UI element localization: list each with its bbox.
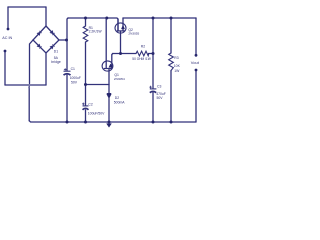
svg-text:50V: 50V [71,80,78,84]
svg-text:2.2K/1W: 2.2K/1W [89,30,103,34]
node D2 bottom [108,121,111,124]
wire Q1 base drop [108,69,110,93]
svg-text:10K: 10K [174,64,181,68]
diode D1a top-left [37,31,41,35]
wire Q2 emitter stub [122,18,124,31]
svg-text:Vout: Vout [191,60,200,65]
wire R2 right lead [149,53,154,55]
wire Vout minus lead [195,71,197,122]
svg-text:1000uF: 1000uF [70,76,81,80]
Vout plus terminal [195,54,198,57]
wire Q2 collector stub [117,19,119,31]
wire bridge plus out [59,39,67,41]
wire AC return bottom [5,84,46,86]
wire top rail right [123,17,196,19]
transistor Q2 [115,23,126,33]
wire C2 to rail [85,110,87,122]
Vout minus terminal [195,69,198,72]
wire AC terminal2 lead [4,52,6,85]
wire R1 top lead [85,18,87,26]
resistor R2 [136,51,149,56]
node R3 bottom [170,121,173,124]
wire top rail left [68,18,118,31]
node Q1 collector top [105,17,108,20]
wire R3 bottom lead [170,71,172,123]
wire bridge bottom lead [45,53,47,85]
Q2 emitter arrow [121,26,124,29]
wire AC terminal1 lead [7,7,9,28]
svg-text:C3: C3 [157,85,161,89]
node Q2 base join [119,52,122,55]
Q1 emitter arrow [109,64,112,67]
capacitor C1 [64,68,71,75]
svg-text:C2: C2 [88,102,92,106]
wire output mid riser [152,18,154,88]
wire plus riser [67,18,68,40]
svg-text:D1: D1 [54,50,58,54]
node C2 bottom [84,121,87,124]
wire C1 branch [66,40,68,71]
wire D2 to rail [108,99,110,123]
svg-text:2N3055: 2N3055 [128,31,139,35]
capacitor C3 [149,86,156,93]
svg-text:500mA: 500mA [114,101,125,105]
node R3 top [170,17,173,20]
svg-text:1W: 1W [174,69,180,73]
node output rail mid [152,17,155,20]
node bridge plus junction [65,39,68,42]
resistor R1 [83,26,88,42]
node R2 right [152,52,155,55]
wire R3 top lead [170,18,172,53]
svg-text:50V: 50V [157,96,164,100]
diode D1d bottom-right [50,44,54,48]
wire base rail R2 [113,53,136,55]
svg-text:R3: R3 [174,56,178,60]
AC terminal bottom [4,50,7,53]
wire bridge top lead [45,7,47,26]
wire node B horizontal [86,84,110,86]
bridge rectifier D1 diamond [33,26,59,53]
node C1 bottom [66,121,69,124]
wire bottom rail [29,121,196,122]
svg-text:R2: R2 [141,44,145,48]
wire bridge minus drop [29,40,33,121]
resistor R3 [169,53,174,71]
wire Q1 emitter [112,54,113,69]
svg-text:AC IN: AC IN [2,36,12,40]
svg-text:50 OHM /1W: 50 OHM /1W [132,57,150,61]
zener diode D2 [107,94,111,99]
AC terminal top [7,28,10,31]
node C3 bottom [152,121,155,124]
capacitor C2 [82,103,89,110]
ground arrow [107,124,112,128]
wire R1 bottom lead [85,42,87,106]
transistor Q1 [102,61,113,71]
node B tee [84,83,87,86]
wire AC top loop [8,6,46,8]
wire Q2 base drop [120,31,122,54]
svg-text:2N3054: 2N3054 [114,77,125,81]
svg-text:bridge: bridge [51,60,61,64]
node R1 top [84,17,87,20]
wire C3 to rail [152,93,154,123]
diode D1b top-right [50,31,54,35]
wire Q1 collector [105,18,107,68]
wire C1 to rail [66,75,68,122]
svg-text:100uF/50V: 100uF/50V [88,111,105,115]
svg-text:C1: C1 [71,67,75,71]
diode D1c bottom-left [37,44,41,48]
wire Vout plus lead [195,18,197,54]
